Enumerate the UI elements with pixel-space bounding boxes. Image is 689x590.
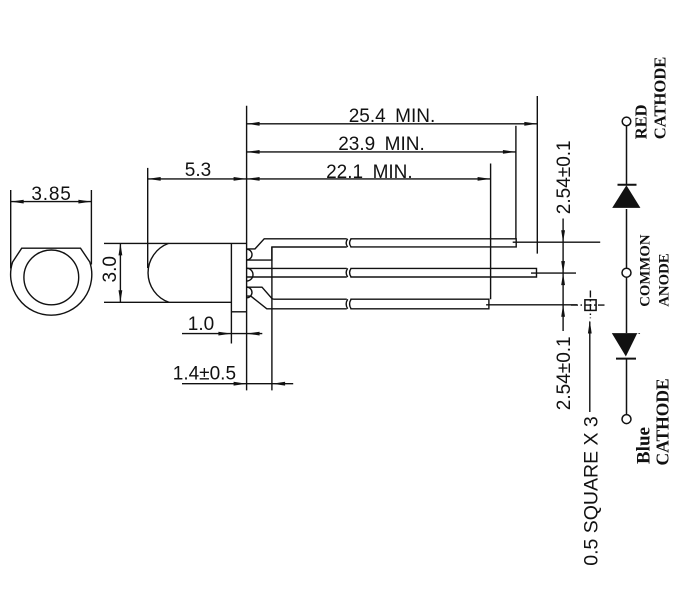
lead center tick top <box>513 241 601 243</box>
dim 3.85 extension line right <box>90 190 92 265</box>
svg-text:2.54±0.1: 2.54±0.1 <box>554 140 575 214</box>
svg-text:3.0: 3.0 <box>100 256 121 282</box>
dim 1.0 dimension line <box>182 333 262 335</box>
lead exit bump bottom <box>247 287 252 298</box>
diode D2 cathode bar <box>616 358 636 360</box>
lead center tick middle <box>531 272 576 274</box>
dim 1.0 arrow (outside right, pointing left) <box>247 332 260 336</box>
dim 5.3 arrow left <box>148 177 161 181</box>
svg-text:0.5 SQUARE X 3: 0.5 SQUARE X 3 <box>581 416 603 566</box>
dim 25.4 extension line <box>536 96 538 254</box>
dim 25.4 arrow right <box>524 122 537 126</box>
svg-text:25.4 MIN.: 25.4 MIN. <box>349 106 436 127</box>
svg-text:CATHODE: CATHODE <box>651 57 670 140</box>
svg-text:2.54±0.1: 2.54±0.1 <box>554 336 575 410</box>
dim 25.4 dimension line <box>247 123 538 125</box>
svg-text:3.85: 3.85 <box>31 184 71 205</box>
dim 1.4 extension line (lead bend) <box>271 247 273 390</box>
dim 5.3 + 22.1 dimension line <box>148 178 491 180</box>
dim 22.1 arrow left <box>247 177 260 181</box>
side view body top line <box>104 242 247 244</box>
lead cross-section square <box>585 300 596 311</box>
square centerline horizontal (dash-dot) <box>571 304 605 306</box>
dim 25.4 arrow left <box>247 122 260 126</box>
side view flange bottom edge <box>231 311 246 313</box>
dim 2.54 arrow down at middle tick <box>561 261 565 273</box>
bottom lead left segment <box>247 287 347 309</box>
svg-text:1.4±0.5: 1.4±0.5 <box>173 363 236 384</box>
dim 23.9 arrow right <box>503 150 516 154</box>
svg-text:23.9 MIN.: 23.9 MIN. <box>338 134 425 155</box>
dim 3.0 arrow down <box>119 290 123 302</box>
side view body bottom line <box>104 301 231 303</box>
dim 22.1 extension line <box>490 164 492 300</box>
lead exit bump top <box>247 249 252 260</box>
dim 3.85 dimension line <box>11 201 92 203</box>
dim 1.0 arrow (outside left, pointing right) <box>218 332 231 336</box>
svg-text:Blue: Blue <box>633 427 654 464</box>
svg-text:1.0: 1.0 <box>188 314 214 335</box>
dim 23.9 arrow left <box>247 150 260 154</box>
dim 1.4 arrow (pointing left) <box>272 382 285 386</box>
dim 1.4 dimension line <box>182 383 293 385</box>
dim 2.54 arrow up at middle tick <box>561 273 565 285</box>
dim 5.3 arrow right <box>234 177 247 181</box>
svg-text:COMMON: COMMON <box>637 234 653 307</box>
dim 23.9 extension line <box>515 126 517 239</box>
dim 22.1 arrow right <box>478 177 491 181</box>
dim 23.9 dimension line <box>247 151 516 153</box>
dim 3.85 arrow right <box>78 200 91 204</box>
diode D2 white slash artifact <box>627 334 638 357</box>
middle lead left segment <box>247 268 347 277</box>
leader line for 0.5 SQUARE <box>589 322 591 413</box>
dim 2.54 arrow up at bottom tick <box>561 305 565 317</box>
node circle Blue cathode <box>622 415 631 424</box>
dim 3.85 extension line left <box>10 190 12 269</box>
dim 3.85 arrow left <box>11 200 24 204</box>
dim 1.4 arrow (pointing right) <box>234 382 247 386</box>
top view LED outline <box>11 248 92 315</box>
svg-text:RED: RED <box>631 104 650 139</box>
dim 2.54 vertical line <box>562 219 564 332</box>
schematic wire segments <box>626 126 628 415</box>
dim 2.54 arrow down at top tick <box>561 230 565 242</box>
svg-text:CATHODE: CATHODE <box>653 378 673 465</box>
leader arrow (pointing up) <box>588 321 592 334</box>
bottom lead right segment <box>350 299 489 309</box>
svg-text:ANODE: ANODE <box>657 253 673 307</box>
svg-text:5.3: 5.3 <box>185 160 211 181</box>
main vertical line (flange right edge / extension) <box>246 106 248 391</box>
dim 3.0 arrow up <box>119 243 123 255</box>
top lead break arcs <box>346 239 351 247</box>
bottom lead break arcs <box>346 299 351 309</box>
top view inner circle (epoxy dome) <box>24 250 79 305</box>
middle lead right segment <box>350 268 536 277</box>
dim 3.0 dimension line <box>119 243 121 302</box>
diode D1 triangle (red LED, pointing up) <box>612 185 640 208</box>
lead exit bump middle <box>247 268 253 281</box>
top lead left segment <box>247 239 347 260</box>
node circle common anode <box>622 268 631 277</box>
side view flange left edge + 1.0 ext <box>230 243 232 343</box>
top lead right segment <box>350 239 516 247</box>
diode D2 triangle (blue LED, pointing down) <box>612 333 640 356</box>
diode D1 cathode bar <box>618 184 637 186</box>
side view dome arc <box>148 243 169 302</box>
middle lead break arcs <box>346 268 351 277</box>
svg-text:22.1 MIN.: 22.1 MIN. <box>326 162 413 183</box>
dim 5.3 extension line <box>147 168 149 268</box>
lead center tick bottom <box>486 304 577 306</box>
node circle RED cathode <box>622 117 631 126</box>
square centerline vertical (dash-dot) <box>589 291 591 319</box>
